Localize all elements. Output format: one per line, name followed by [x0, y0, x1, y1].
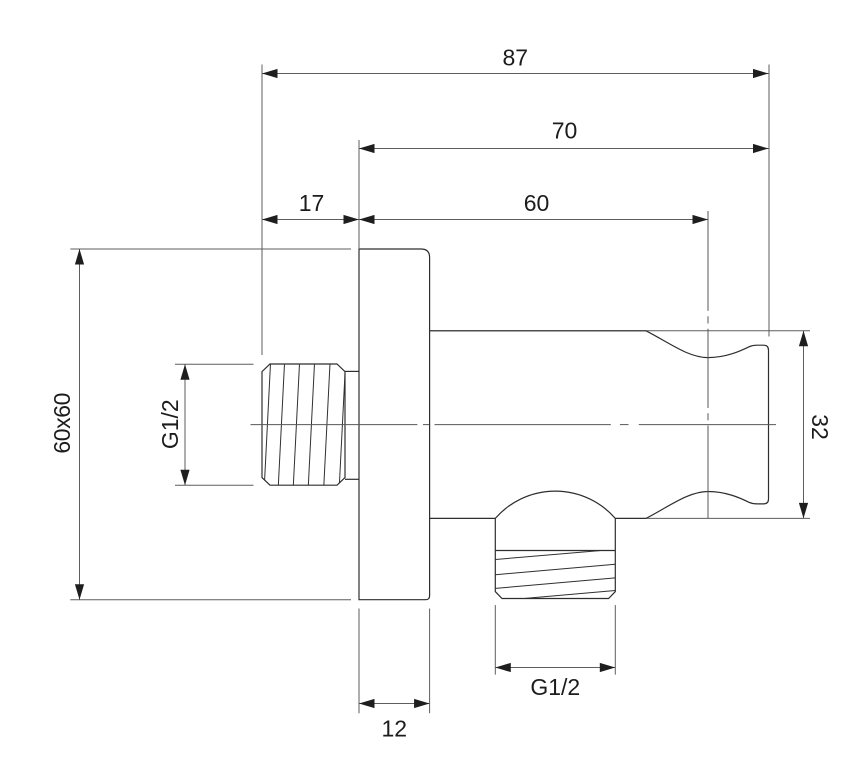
inlet thread (left, G1/2): [262, 364, 345, 485]
svg-text:70: 70: [552, 118, 578, 144]
extension line left (87/17): [261, 65, 263, 356]
outlet thread hatch: [495, 549, 615, 601]
dimension 60x60: [49, 249, 351, 600]
dimension 60: [359, 190, 708, 224]
dimension 17: [262, 190, 359, 224]
dimension 87: [262, 44, 769, 78]
inlet thread hatch: [264, 364, 345, 487]
holder vertical centerline: [707, 211, 709, 518]
svg-text:60: 60: [524, 190, 550, 216]
bottom outlet dome: [495, 491, 615, 518]
body bottom edge: [430, 517, 810, 519]
extension line right (87/70): [768, 65, 770, 337]
plate left edge extension up to 70-dim: [358, 140, 360, 249]
svg-text:32: 32: [807, 414, 833, 440]
dimension G1/2 bottom: [495, 605, 615, 700]
svg-text:87: 87: [503, 44, 529, 70]
dimension 12: [359, 609, 430, 742]
svg-text:17: 17: [299, 190, 325, 216]
svg-text:G1/2: G1/2: [157, 399, 183, 449]
horizontal centerline: [251, 424, 777, 426]
dimension 32: [799, 331, 833, 519]
dimension G1/2 left: [157, 364, 254, 485]
wall plate: [359, 249, 430, 600]
holder cone profile right end: [646, 331, 769, 519]
svg-text:60x60: 60x60: [49, 393, 75, 454]
svg-text:12: 12: [382, 716, 408, 742]
bottom outlet sides and nut: [495, 518, 615, 598]
neck between thread and plate: [345, 371, 359, 479]
dimension 70: [359, 118, 769, 153]
svg-text:G1/2: G1/2: [530, 674, 580, 700]
body top edge: [430, 330, 810, 332]
